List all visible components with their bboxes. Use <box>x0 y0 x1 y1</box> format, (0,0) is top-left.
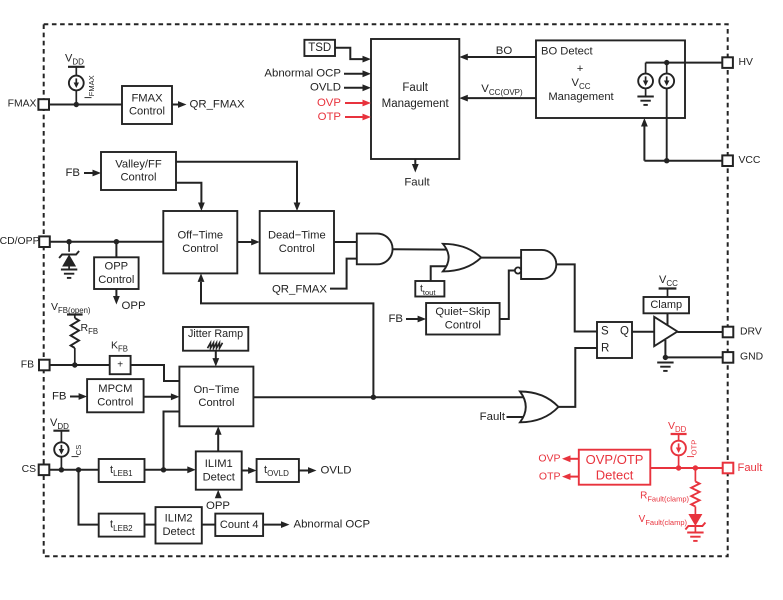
svg-text:FB: FB <box>21 359 34 370</box>
block Quiet-Skip Control <box>426 303 500 335</box>
resistor RFault(clamp) (red) <box>691 482 699 507</box>
svg-text:FMAX: FMAX <box>8 99 37 110</box>
block BO Detect + VCC Management <box>536 40 685 118</box>
wire RFault(clamp) branch (red) <box>694 468 696 482</box>
current source HV right <box>659 74 674 89</box>
arrow Fault output down <box>412 164 419 173</box>
svg-text:VCC: VCC <box>739 155 761 166</box>
NAND gate U3 <box>521 250 556 279</box>
svg-text:MPCM: MPCM <box>98 383 132 395</box>
arrow OVLD output <box>308 467 317 474</box>
svg-text:FB: FB <box>52 390 67 402</box>
wire feedback riser to Off-Time <box>201 282 373 397</box>
arrow OTP output (red) <box>562 473 571 480</box>
block FMAX Control <box>122 86 172 124</box>
svg-text:+: + <box>117 360 123 371</box>
node VCC junction <box>664 158 669 163</box>
wire HV net <box>646 62 723 64</box>
node FB RFB junction <box>72 362 77 367</box>
dashed IC boundary <box>44 24 728 556</box>
node CS branch junction <box>76 467 81 472</box>
svg-text:Valley/FF: Valley/FF <box>115 158 162 170</box>
block Jitter Ramp <box>183 327 248 351</box>
svg-text:VFault(clamp): VFault(clamp) <box>639 514 688 527</box>
arrow MPCM into On-Time <box>171 393 180 400</box>
svg-text:ILIM1: ILIM1 <box>205 458 233 470</box>
pin CD/OPP <box>39 236 50 247</box>
svg-text:VFB(open): VFB(open) <box>51 301 91 315</box>
wire FB to MPCM <box>70 396 80 398</box>
pin FMAX <box>38 99 49 110</box>
node HV junction <box>664 60 669 65</box>
wire AND gate to OR gate <box>393 248 450 250</box>
wire Valley/FF to Dead-Time <box>176 162 297 204</box>
arrow OPP into ILIM1 <box>215 490 222 499</box>
current source ICS <box>53 430 69 432</box>
wire OPP into ILIM1 <box>217 494 219 498</box>
wire FB to Quiet-Skip <box>406 318 419 320</box>
arrow FB into MPCM <box>79 393 88 400</box>
block Valley/FF Control <box>101 152 176 190</box>
wire OTP input (red) <box>345 116 364 118</box>
current source HV left <box>638 74 653 89</box>
svg-text:OPP: OPP <box>122 300 146 312</box>
svg-text:QR_FMAX: QR_FMAX <box>190 98 245 110</box>
svg-text:Control: Control <box>445 319 481 331</box>
svg-text:VDD: VDD <box>668 420 687 434</box>
wire Quiet-Skip to NAND bubble <box>500 271 515 320</box>
svg-text:VCC(OVP): VCC(OVP) <box>481 83 523 97</box>
wire CS branch to tLEB2 <box>79 470 99 525</box>
wire latch Q to driver <box>632 331 654 333</box>
svg-text:CS: CS <box>22 464 37 475</box>
node CS riser junction <box>161 467 166 472</box>
svg-text:ILIM2: ILIM2 <box>165 513 193 525</box>
arrow QR_FMAX output <box>172 104 178 106</box>
pin GND <box>723 352 734 363</box>
arrow riser into Off-Time <box>198 273 205 282</box>
wire driver ground tap <box>664 340 666 357</box>
wire BO net <box>467 56 536 58</box>
wire Abnormal OCP input <box>344 73 364 75</box>
wire Fault output of Fault Management <box>414 159 416 165</box>
wire ILIM1 to On-Time <box>217 433 219 451</box>
wire ILIM2 to Count 4 <box>202 524 216 526</box>
resistor RFB <box>67 313 83 315</box>
node CS ICS junction <box>59 467 64 472</box>
pin VCC <box>722 155 733 166</box>
node CD/OPP OPP junction <box>114 239 119 244</box>
arrow OVP into Fault Management (red) <box>363 100 372 107</box>
arrow Jitter Ramp into On-Time <box>212 358 219 367</box>
svg-text:Detect: Detect <box>596 467 634 482</box>
node FMAX junction <box>74 102 79 107</box>
wire VDD bar to ICS source to CS net <box>60 431 62 443</box>
wire DRV net <box>677 331 722 333</box>
block ILIM1 Detect <box>196 451 242 489</box>
svg-text:Control: Control <box>279 243 315 255</box>
svg-text:Management: Management <box>548 91 614 103</box>
svg-text:Detect: Detect <box>203 471 236 483</box>
pin Fault (red) <box>723 463 734 474</box>
wire tOVLD to OVLD label <box>299 470 309 472</box>
svg-text:S: S <box>601 326 609 338</box>
arrow Off-Time into Dead-Time <box>251 239 260 246</box>
svg-text:OVLD: OVLD <box>310 82 341 94</box>
svg-text:On−Time: On−Time <box>193 384 239 396</box>
svg-text:Jitter Ramp: Jitter Ramp <box>188 328 243 340</box>
svg-text:Off−Time: Off−Time <box>177 230 223 242</box>
svg-text:Fault: Fault <box>738 462 764 474</box>
arrow Valley/FF into Off-Time <box>198 203 205 212</box>
driver buffer <box>654 317 677 346</box>
svg-text:OPP: OPP <box>206 500 230 512</box>
block Fault Management <box>371 39 459 159</box>
arrow ILIM1 into On-Time <box>215 426 222 435</box>
arrow FB into Quiet-Skip <box>418 316 427 323</box>
block Off-Time Control <box>163 211 237 273</box>
tbar VCC clamp <box>659 287 677 289</box>
svg-text:KFB: KFB <box>111 340 128 354</box>
wire NAND gate to latch S input <box>556 264 597 331</box>
wire t_tout to OR gate <box>431 266 449 281</box>
zener VFault(clamp) (red) <box>685 514 705 530</box>
svg-text:OTP: OTP <box>318 111 341 123</box>
wire VDD bar to IFMAX source to FMAX net <box>75 67 77 76</box>
svg-text:Detect: Detect <box>162 526 195 538</box>
svg-text:ICS: ICS <box>71 445 84 458</box>
arrow Valley/FF into Dead-Time <box>294 203 301 212</box>
svg-text:BO: BO <box>496 45 513 57</box>
svg-text:Abnormal OCP: Abnormal OCP <box>294 518 371 530</box>
svg-text:Management: Management <box>382 98 450 110</box>
svg-text:Clamp: Clamp <box>650 299 682 311</box>
svg-text:Control: Control <box>129 106 165 118</box>
wire Count 4 to Abnormal OCP label <box>263 524 281 526</box>
AND gate U1 <box>357 234 393 265</box>
svg-text:Quiet−Skip: Quiet−Skip <box>435 306 490 318</box>
svg-text:Control: Control <box>198 397 234 409</box>
svg-text:DRV: DRV <box>740 326 762 337</box>
pin CS <box>39 465 50 476</box>
svg-text:OVLD: OVLD <box>321 464 352 476</box>
OR gate U4 fault <box>520 392 559 423</box>
wire zener to ground (red) <box>694 527 696 533</box>
wire Valley/FF to Off-Time <box>176 183 201 204</box>
svg-text:GND: GND <box>740 352 763 363</box>
svg-text:OVP: OVP <box>538 453 560 465</box>
svg-text:VCC: VCC <box>659 274 678 288</box>
svg-text:RFB: RFB <box>81 322 99 336</box>
arrow ILIM1 into tOVLD <box>248 467 257 474</box>
wire tLEB2 to ILIM2 <box>145 524 156 526</box>
svg-text:HV: HV <box>739 57 754 68</box>
block t_tout <box>415 281 444 297</box>
wire FMAX pin to FMAX Control <box>49 104 122 106</box>
wire ILIM1 to tOVLD <box>242 470 250 472</box>
svg-text:OTP: OTP <box>539 470 561 482</box>
block ILIM2 Detect <box>156 507 202 543</box>
svg-text:RFault(clamp): RFault(clamp) <box>640 491 689 504</box>
svg-text:VDD: VDD <box>50 417 69 431</box>
arrow Abnormal OCP into Fault Management <box>363 70 372 77</box>
wire VCC into BO box (arrow up) <box>643 125 645 161</box>
block KFB summer <box>110 356 131 374</box>
wire MPCM to On-Time <box>144 396 172 398</box>
svg-text:Control: Control <box>120 172 156 184</box>
block OPP Control <box>94 257 139 289</box>
wire Dead-Time to AND gate <box>334 241 357 243</box>
wire Fault pin net (red) <box>650 467 722 469</box>
wire OVLD input <box>344 87 364 89</box>
arrow VCC(OVP) into Fault Management <box>459 95 468 102</box>
wire OPP Control output <box>115 289 117 297</box>
svg-text:CD/OPP: CD/OPP <box>0 236 40 247</box>
wire VFB(open) resistor branch <box>74 315 76 319</box>
svg-text:QR_FMAX: QR_FMAX <box>272 283 327 295</box>
wire CD/OPP net <box>50 241 163 243</box>
svg-text:FMAX: FMAX <box>131 92 163 104</box>
block Clamp <box>644 297 690 313</box>
ground driver <box>663 355 668 360</box>
ground red zener <box>687 533 703 541</box>
node On-Time output junction <box>371 395 376 400</box>
svg-text:FB: FB <box>65 167 80 179</box>
block tLEB2 <box>99 514 145 537</box>
pin HV <box>722 57 733 68</box>
pin FB <box>39 360 50 371</box>
block OVP/OTP Detect (red) <box>579 450 651 485</box>
pin DRV <box>723 327 734 338</box>
svg-text:Dead−Time: Dead−Time <box>268 230 326 242</box>
svg-text:OPP: OPP <box>105 260 129 272</box>
wire OVP input (red) <box>345 102 364 104</box>
svg-text:Control: Control <box>98 274 134 286</box>
wire tLEB1 to ILIM1 <box>145 469 189 471</box>
svg-text:Fault: Fault <box>404 177 430 189</box>
wire OVP output (red) <box>570 458 579 460</box>
wire Clamp to driver <box>667 313 669 326</box>
wire VCC net <box>644 160 722 162</box>
svg-text:+: + <box>577 63 584 75</box>
svg-text:IFMAX: IFMAX <box>84 75 97 99</box>
block Count 4 <box>215 514 263 536</box>
svg-text:Q: Q <box>620 326 629 338</box>
arrow Abnormal OCP output <box>281 521 290 528</box>
svg-text:Abnormal OCP: Abnormal OCP <box>264 68 341 80</box>
wire QR_FMAX to AND gate <box>330 259 357 289</box>
node Fault red junction 1 <box>676 465 681 470</box>
svg-text:IOTP: IOTP <box>686 440 699 458</box>
arrow VCC into BO box <box>641 118 648 127</box>
node CD/OPP zener junction <box>66 239 71 244</box>
wire Off-Time to Dead-Time <box>237 241 252 243</box>
latch SR <box>597 322 632 358</box>
svg-text:R: R <box>601 343 609 355</box>
block Dead-Time Control <box>260 211 334 273</box>
wire KFB to On-Time <box>131 365 180 381</box>
svg-text:VDD: VDD <box>65 53 84 67</box>
svg-text:TSD: TSD <box>308 42 331 54</box>
svg-text:Fault: Fault <box>480 411 506 423</box>
arrow OVP output (red) <box>562 455 571 462</box>
wire On-Time output net <box>253 396 528 398</box>
arrow OTP into Fault Management (red) <box>363 114 372 121</box>
wire VDD bar to IOTP source (red) <box>678 434 680 441</box>
wire Jitter Ramp to On-Time <box>215 351 217 360</box>
wire CS pin to tLEB1 <box>49 469 98 471</box>
node Fault red junction 2 <box>693 465 698 470</box>
svg-text:OVP/OTP: OVP/OTP <box>586 452 644 467</box>
block tLEB1 <box>99 459 145 482</box>
wire OPP Control branch <box>115 242 117 258</box>
current source IFMAX <box>68 66 85 68</box>
arrow TSD into Fault Management <box>363 56 372 63</box>
arrow OPP output down <box>113 296 120 305</box>
svg-text:Control: Control <box>182 243 218 255</box>
wire VCC charge path <box>666 88 668 161</box>
zener on CD/OPP <box>59 251 79 267</box>
wire Fault into OR gate <box>507 416 529 418</box>
arrow tLEB1 into ILIM1 <box>187 466 196 473</box>
wire OTP output (red) <box>570 476 579 478</box>
arrow OVLD into Fault Management <box>363 84 372 91</box>
svg-text:Count 4: Count 4 <box>220 519 259 531</box>
wire OR gate to NAND gate <box>481 257 521 259</box>
arrow BO into Fault Management <box>459 54 468 61</box>
wire VCC bar to Clamp <box>667 289 669 298</box>
svg-text:OVP: OVP <box>317 97 341 109</box>
wire VCC(OVP) net <box>467 97 536 99</box>
svg-text:Fault: Fault <box>402 82 428 94</box>
ground HV source <box>637 97 653 105</box>
wire FB to Valley/FF <box>84 172 94 174</box>
wire GND net <box>665 356 722 358</box>
current source IOTP (red) <box>671 433 687 435</box>
block MPCM Control <box>87 379 144 412</box>
block On-Time Control <box>179 367 253 427</box>
svg-text:FB: FB <box>388 313 403 325</box>
block TSD <box>304 40 335 56</box>
wire CS riser to On-Time <box>164 412 180 470</box>
ground CD/OPP zener <box>61 270 77 278</box>
svg-text:BO Detect: BO Detect <box>541 46 593 58</box>
wire HV current source stubs <box>645 63 647 74</box>
wire TSD to Fault Management <box>335 48 364 59</box>
wire Fault OR gate to latch R input <box>559 348 598 407</box>
arrow FB into Valley/FF <box>93 170 102 177</box>
wire zener branch on CD/OPP <box>68 242 70 252</box>
wire FB pin to KFB <box>50 364 110 366</box>
svg-text:Control: Control <box>97 396 133 408</box>
OR gate U2 <box>443 244 481 272</box>
block tOVLD <box>257 459 299 482</box>
